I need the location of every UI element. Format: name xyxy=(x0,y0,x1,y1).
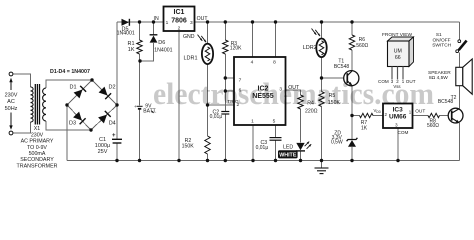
svg-text:0,5W: 0,5W xyxy=(331,139,343,145)
svg-text:GND: GND xyxy=(183,34,195,40)
svg-text:electroschematics.com: electroschematics.com xyxy=(153,76,434,111)
svg-text:50Hz: 50Hz xyxy=(5,106,18,112)
svg-text:500mA: 500mA xyxy=(29,151,46,157)
svg-text:LDR2: LDR2 xyxy=(303,45,317,51)
svg-text:0,01μ: 0,01μ xyxy=(256,145,269,151)
svg-text:SWITCH: SWITCH xyxy=(432,42,451,48)
svg-text:D4: D4 xyxy=(109,120,116,126)
svg-text:AC PRIMARY: AC PRIMARY xyxy=(21,139,54,145)
svg-text:BC548: BC548 xyxy=(438,99,454,105)
svg-text:UM66: UM66 xyxy=(389,114,407,121)
svg-text:TO 0-9V: TO 0-9V xyxy=(27,145,47,151)
svg-text:D2: D2 xyxy=(109,85,116,91)
svg-text:TRANSFORMER: TRANSFORMER xyxy=(17,163,58,169)
svg-text:1: 1 xyxy=(166,20,169,26)
svg-text:3: 3 xyxy=(190,20,193,26)
svg-text:OUT: OUT xyxy=(197,16,209,22)
svg-text:4: 4 xyxy=(251,60,254,66)
svg-text:C1: C1 xyxy=(99,137,106,143)
svg-text:WHITE: WHITE xyxy=(279,153,297,159)
svg-text:1N4001: 1N4001 xyxy=(154,47,172,53)
svg-text:5: 5 xyxy=(273,119,276,125)
svg-text:AC: AC xyxy=(7,99,15,105)
svg-text:IN: IN xyxy=(154,16,159,22)
svg-text:150K: 150K xyxy=(182,144,195,150)
svg-text:SECONDARY: SECONDARY xyxy=(20,157,54,163)
svg-text:0,01μ: 0,01μ xyxy=(210,114,223,120)
svg-text:120K: 120K xyxy=(230,46,242,52)
svg-text:+: + xyxy=(134,104,137,109)
svg-text:LED: LED xyxy=(283,144,293,150)
svg-text:IC1: IC1 xyxy=(174,9,185,16)
svg-text:ON/OFF: ON/OFF xyxy=(432,37,450,43)
svg-text:UM: UM xyxy=(394,49,402,55)
svg-text:+: + xyxy=(112,133,116,139)
svg-text:1K: 1K xyxy=(128,47,135,53)
svg-text:230V: 230V xyxy=(31,132,44,138)
svg-text:D3: D3 xyxy=(69,120,76,126)
svg-text:25V: 25V xyxy=(98,149,108,155)
svg-text:FRONT VIEW: FRONT VIEW xyxy=(382,32,412,38)
svg-text:8: 8 xyxy=(273,60,276,66)
svg-text:230V: 230V xyxy=(5,92,18,98)
svg-text:1N4001: 1N4001 xyxy=(117,31,135,37)
svg-text:D6: D6 xyxy=(158,40,165,46)
svg-text:2: 2 xyxy=(178,25,181,31)
svg-text:66: 66 xyxy=(395,55,401,61)
svg-text:D1-D4 = 1N4007: D1-D4 = 1N4007 xyxy=(50,69,90,75)
svg-text:X1: X1 xyxy=(34,126,41,132)
svg-text:LDR1: LDR1 xyxy=(183,56,197,62)
svg-text:1: 1 xyxy=(251,119,254,125)
svg-text:D1: D1 xyxy=(70,85,77,91)
svg-text:7806: 7806 xyxy=(171,18,187,25)
svg-text:560Ω: 560Ω xyxy=(427,123,439,129)
svg-text:BC548: BC548 xyxy=(334,64,350,70)
svg-text:COM: COM xyxy=(398,130,409,135)
svg-text:1K: 1K xyxy=(361,125,368,131)
svg-text:560Ω: 560Ω xyxy=(356,43,368,49)
svg-text:S1: S1 xyxy=(436,32,442,38)
